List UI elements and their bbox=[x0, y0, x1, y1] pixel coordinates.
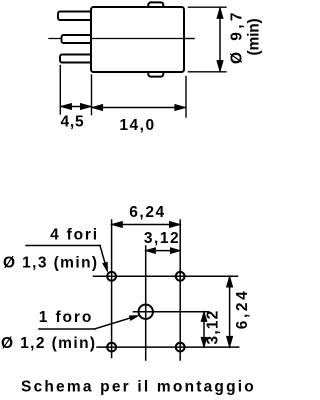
svg-text:4,5: 4,5 bbox=[61, 114, 85, 131]
svg-text:Ø 9,7: Ø 9,7 bbox=[229, 9, 246, 64]
svg-text:Ø 1,2 (min): Ø 1,2 (min) bbox=[1, 335, 97, 352]
svg-text:6,24: 6,24 bbox=[129, 204, 166, 221]
svg-text:1 foro: 1 foro bbox=[39, 309, 93, 326]
svg-text:Ø 1,3 (min): Ø 1,3 (min) bbox=[3, 255, 99, 272]
svg-text:3,12: 3,12 bbox=[205, 310, 222, 345]
svg-text:Schema per il montaggio: Schema per il montaggio bbox=[21, 379, 256, 396]
svg-text:3,12: 3,12 bbox=[144, 230, 180, 247]
svg-text:4 fori: 4 fori bbox=[50, 227, 99, 244]
svg-text:6,24: 6,24 bbox=[234, 289, 251, 330]
svg-text:(min): (min) bbox=[246, 19, 263, 56]
svg-text:14,0: 14,0 bbox=[119, 117, 155, 134]
